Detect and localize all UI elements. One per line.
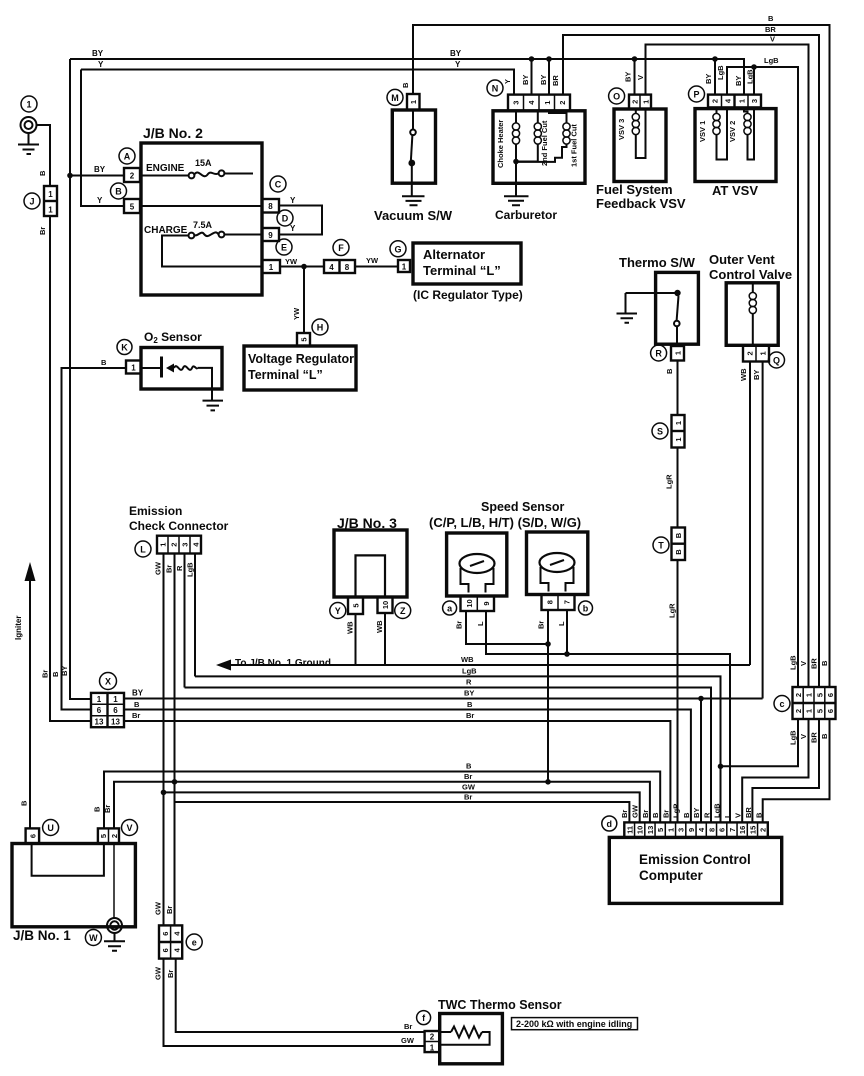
svg-text:Br: Br xyxy=(103,805,112,813)
J/B No.3 box xyxy=(334,530,407,597)
svg-text:B: B xyxy=(665,368,674,374)
carburetor box xyxy=(493,111,585,184)
wire B from O2 sensor down to X pin 6 xyxy=(62,368,127,710)
speed sensor a box xyxy=(447,533,507,596)
OVCV box xyxy=(726,283,778,346)
svg-text:BR: BR xyxy=(765,25,776,34)
svg-text:10: 10 xyxy=(636,826,645,834)
svg-text:Br: Br xyxy=(466,711,474,720)
svg-text:1: 1 xyxy=(543,101,552,105)
svg-text:2: 2 xyxy=(169,543,178,547)
junction LgB with connector c branch xyxy=(718,764,724,770)
svg-text:Terminal “L”: Terminal “L” xyxy=(423,263,501,278)
svg-text:Br: Br xyxy=(41,670,50,678)
svg-text:1: 1 xyxy=(402,263,407,272)
svg-text:VSV 1: VSV 1 xyxy=(698,121,707,142)
connector c circled xyxy=(774,696,790,712)
svg-text:16: 16 xyxy=(738,826,747,834)
svg-text:YW: YW xyxy=(292,307,301,320)
connector Y circled + pin 5 xyxy=(330,597,363,619)
wire Br J down to X pin 13 xyxy=(50,216,91,721)
svg-text:O2 Sensor: O2 Sensor xyxy=(144,330,202,345)
wire igniter down to J/B No.1 pin 6 xyxy=(29,578,31,828)
svg-text:V: V xyxy=(734,813,743,818)
svg-text:1: 1 xyxy=(430,1044,435,1053)
svg-text:4: 4 xyxy=(697,827,706,832)
connector J xyxy=(24,186,57,216)
svg-text:13: 13 xyxy=(111,718,120,727)
svg-text:X: X xyxy=(105,677,111,687)
svg-text:4: 4 xyxy=(172,931,181,936)
wire pin8 to pin9 loop xyxy=(279,206,322,235)
svg-text:3: 3 xyxy=(677,828,686,832)
ground (thermo S/W) xyxy=(617,293,638,323)
svg-text:J/B No. 2: J/B No. 2 xyxy=(143,125,203,141)
svg-text:LgB: LgB xyxy=(713,803,722,818)
J/B No.3 inner slot xyxy=(356,555,386,597)
svg-text:Br: Br xyxy=(455,621,464,629)
pin 1 (K) xyxy=(126,361,141,374)
svg-text:GW: GW xyxy=(631,804,640,818)
connector c box pins 2 1 5 6 xyxy=(793,687,836,719)
wire Br sensor a pin10 xyxy=(466,611,548,644)
svg-text:TWC Thermo Sensor: TWC Thermo Sensor xyxy=(438,998,562,1012)
svg-text:Br: Br xyxy=(464,772,472,781)
wire WB J/B3 pin10 down to WB line xyxy=(384,613,386,665)
svg-text:O: O xyxy=(613,92,620,102)
svg-text:Control Valve: Control Valve xyxy=(709,267,792,282)
OVCV connector pins 2 1 xyxy=(743,345,769,361)
svg-text:2: 2 xyxy=(430,1033,435,1042)
svg-text:V: V xyxy=(126,823,132,833)
svg-text:ENGINE: ENGINE xyxy=(146,163,185,174)
svg-text:4: 4 xyxy=(527,100,536,105)
svg-text:7: 7 xyxy=(562,600,571,604)
svg-text:2: 2 xyxy=(794,709,803,713)
computer pin wire labels xyxy=(620,803,764,818)
wire Br bus3 to computer pin 11 xyxy=(175,802,630,822)
wire Br sensor b pin8 down to Br bus xyxy=(547,610,549,782)
wire BR connector c to computer pin 15 xyxy=(752,719,819,822)
svg-text:LgB: LgB xyxy=(789,655,798,670)
connector b circled xyxy=(579,601,593,615)
junction fuel VSV pin2 on BY bus xyxy=(632,56,638,62)
wire V connector c to computer pin 16 xyxy=(742,719,808,822)
svg-text:1: 1 xyxy=(759,351,768,355)
speed sensor a connector pins 10 9 xyxy=(461,596,495,611)
svg-text:4: 4 xyxy=(724,98,733,103)
pin 2 (A) xyxy=(124,168,140,182)
junction AT VSV pin2 on BY bus xyxy=(712,56,718,62)
svg-text:Y: Y xyxy=(97,196,103,205)
svg-text:G: G xyxy=(394,244,401,254)
svg-text:1: 1 xyxy=(674,437,683,441)
svg-text:Br: Br xyxy=(38,227,47,235)
connector P circled xyxy=(689,86,705,102)
svg-text:e: e xyxy=(192,938,197,948)
fuse CHARGE 7.5A xyxy=(162,232,262,267)
svg-text:Computer: Computer xyxy=(639,868,703,883)
wire B connector c to computer pin 2 xyxy=(763,719,830,822)
svg-text:WB: WB xyxy=(375,620,384,633)
AT VSV connector pins 2 4 1 3 xyxy=(708,95,761,108)
svg-text:Br: Br xyxy=(165,565,174,573)
junction AT VSV pin3 on LgB line xyxy=(751,64,757,70)
connector D circled xyxy=(277,210,293,226)
svg-text:WB: WB xyxy=(346,621,355,634)
svg-text:13: 13 xyxy=(646,826,655,834)
svg-text:8: 8 xyxy=(268,202,273,211)
svg-text:U: U xyxy=(47,823,54,833)
wire V top line from fuel VSV pin 1 to right edge xyxy=(646,45,809,688)
svg-text:5: 5 xyxy=(99,834,108,838)
svg-text:Vacuum S/W: Vacuum S/W xyxy=(374,208,453,223)
connector O circled xyxy=(609,88,625,104)
2nd Fuel Cut coil xyxy=(516,111,541,162)
svg-text:Br: Br xyxy=(464,793,472,802)
svg-text:A: A xyxy=(124,152,131,162)
svg-text:6: 6 xyxy=(826,693,835,697)
fuse ENGINE 15A xyxy=(140,170,253,178)
vacuum S/W box xyxy=(392,110,435,183)
svg-text:B: B xyxy=(768,14,774,23)
svg-text:Check Connector: Check Connector xyxy=(129,519,229,533)
svg-text:LgB: LgB xyxy=(764,56,779,65)
AT VSV box xyxy=(695,109,776,182)
svg-text:1: 1 xyxy=(409,100,418,104)
svg-text:BR: BR xyxy=(810,658,819,669)
emission control computer box xyxy=(609,837,781,903)
pin 8 (C) xyxy=(262,199,279,213)
svg-text:AT VSV: AT VSV xyxy=(712,183,758,198)
svg-text:(C/P, L/B, H/T) (S/D, W/G): (C/P, L/B, H/T) (S/D, W/G) xyxy=(429,515,581,530)
svg-text:Br: Br xyxy=(641,810,650,818)
svg-text:1: 1 xyxy=(642,100,651,104)
junction carb pin1 on BY bus xyxy=(546,56,552,62)
wire WB OVCV pin2 down to WB line xyxy=(749,362,751,666)
svg-text:Y: Y xyxy=(335,606,341,616)
svg-text:6: 6 xyxy=(28,834,37,838)
wire GW bus to computer pin 10 xyxy=(164,792,640,822)
svg-text:Feedback VSV: Feedback VSV xyxy=(596,196,686,211)
thermo switch contacts xyxy=(626,290,681,346)
svg-text:Emission Control: Emission Control xyxy=(639,852,751,867)
svg-text:5: 5 xyxy=(815,693,824,697)
svg-text:GW: GW xyxy=(154,966,163,980)
svg-text:10: 10 xyxy=(465,599,474,607)
svg-text:1: 1 xyxy=(97,695,102,704)
wire carb pin1 BY xyxy=(548,59,550,95)
wire AT VSV pin2 BY xyxy=(714,59,716,95)
VSV 2 coil xyxy=(744,107,754,159)
svg-text:C: C xyxy=(275,180,282,190)
TWC pin connector 2 1 xyxy=(425,1031,440,1053)
svg-text:15A: 15A xyxy=(195,158,212,168)
svg-text:B: B xyxy=(820,660,829,666)
wire Br check pin2 down to e connector xyxy=(174,554,176,926)
thermo S/W box xyxy=(656,272,699,344)
svg-text:LgR: LgR xyxy=(668,603,677,618)
svg-text:LgB: LgB xyxy=(746,69,755,84)
wire L line to computer pin 7 xyxy=(567,654,730,822)
wire BY bus from X row1 to OVCV riser xyxy=(124,698,763,700)
grommet W xyxy=(85,918,122,946)
svg-text:GW: GW xyxy=(154,561,163,575)
svg-text:3: 3 xyxy=(750,99,759,103)
wire LgB bus to computer pin 6 xyxy=(195,676,721,822)
vacuum switch contacts xyxy=(408,110,415,196)
svg-text:1: 1 xyxy=(805,709,814,713)
wire B top line from vacuum switch to right edge xyxy=(413,25,830,687)
grommet ground terminal xyxy=(21,117,37,133)
svg-text:Y: Y xyxy=(455,60,461,69)
svg-text:W: W xyxy=(89,933,98,943)
svg-text:K: K xyxy=(121,343,128,353)
svg-text:Carburetor: Carburetor xyxy=(495,208,557,222)
svg-text:2: 2 xyxy=(631,100,640,104)
svg-text:2: 2 xyxy=(110,834,119,838)
ground (O2 sensor) xyxy=(203,389,224,410)
svg-text:Br: Br xyxy=(662,810,671,818)
svg-text:2: 2 xyxy=(746,351,755,355)
svg-text:BY: BY xyxy=(624,72,633,82)
connector a circled xyxy=(443,601,457,615)
wire LgB check pin4 to LgB bus xyxy=(194,554,196,677)
svg-text:B: B xyxy=(674,549,683,555)
TWC sensor box xyxy=(440,1014,503,1064)
O2 sensor element: electrode, arrow, resistor xyxy=(141,357,212,390)
svg-text:GW: GW xyxy=(401,1036,415,1045)
svg-text:2: 2 xyxy=(558,101,567,105)
svg-text:c: c xyxy=(779,699,784,709)
wire L sensor b pin7 xyxy=(566,610,568,654)
wire B grommet to J xyxy=(37,125,51,186)
svg-text:BY: BY xyxy=(752,370,761,380)
igniter arrow xyxy=(25,562,36,581)
svg-text:9: 9 xyxy=(268,231,273,240)
connector F xyxy=(324,240,355,274)
svg-text:BY: BY xyxy=(734,76,743,86)
wire Br e to TWC pin2 xyxy=(176,959,425,1032)
svg-text:BY: BY xyxy=(132,689,144,698)
svg-text:B: B xyxy=(820,733,829,739)
svg-text:B: B xyxy=(674,532,683,538)
svg-text:J: J xyxy=(29,197,34,207)
wire pin1(E) to connector F xyxy=(280,266,324,268)
svg-text:Choke Heater: Choke Heater xyxy=(496,120,505,168)
svg-text:BR: BR xyxy=(810,732,819,743)
connector Q circled xyxy=(769,352,785,368)
svg-text:8: 8 xyxy=(345,263,350,272)
svg-text:Y: Y xyxy=(98,60,104,69)
connector e box pins 6/4 xyxy=(159,925,202,958)
VSV 1 coil xyxy=(713,109,727,160)
junction speed sensor Br on Br bus xyxy=(545,779,551,785)
svg-text:L: L xyxy=(476,621,485,626)
check connector strip pins 1 2 3 4 xyxy=(157,536,201,554)
svg-text:N: N xyxy=(492,84,499,94)
svg-text:Thermo S/W: Thermo S/W xyxy=(619,255,696,270)
svg-text:5: 5 xyxy=(352,603,361,607)
svg-text:3: 3 xyxy=(180,543,189,547)
svg-text:Br: Br xyxy=(132,711,140,720)
svg-text:T: T xyxy=(658,541,664,551)
svg-text:CHARGE: CHARGE xyxy=(144,225,188,236)
wire LgR T down to computer pin 3 xyxy=(677,560,679,822)
ground (carburetor) xyxy=(504,183,529,205)
svg-text:LgB: LgB xyxy=(789,730,798,745)
svg-text:5: 5 xyxy=(130,203,135,212)
pin 1 (E) xyxy=(262,260,280,273)
svg-text:5: 5 xyxy=(656,828,665,832)
svg-text:B: B xyxy=(101,358,107,367)
svg-text:R: R xyxy=(655,349,662,359)
wire BY left riser with tap to J/B2 pin A, down to X pin 1 xyxy=(70,59,91,699)
1st Fuel Cut coil xyxy=(516,111,570,162)
svg-text:1: 1 xyxy=(113,695,118,704)
svg-text:LgB: LgB xyxy=(462,667,477,676)
svg-text:BR: BR xyxy=(551,75,560,86)
svg-text:Q: Q xyxy=(773,356,780,366)
pin 5 (B) xyxy=(124,199,140,213)
wire R bus to computer pin 8 xyxy=(185,688,712,823)
svg-text:Fuel System: Fuel System xyxy=(596,182,673,197)
svg-text:8: 8 xyxy=(707,828,716,832)
svg-text:S: S xyxy=(657,427,663,437)
svg-text:1st Fuel Cut: 1st Fuel Cut xyxy=(570,124,579,167)
svg-text:D: D xyxy=(282,214,289,224)
svg-text:4: 4 xyxy=(329,263,334,272)
svg-text:YW: YW xyxy=(366,256,379,265)
connector S inline xyxy=(652,415,685,448)
svg-text:R: R xyxy=(466,678,472,687)
J/B No.1 inner partition xyxy=(32,844,104,876)
wire YW down to H xyxy=(303,267,305,334)
wire R check pin3 to R bus xyxy=(184,554,186,688)
svg-text:B: B xyxy=(651,812,660,818)
wire GW e to TWC pin1 xyxy=(164,959,425,1046)
svg-text:Igniter: Igniter xyxy=(14,616,23,640)
pin 9 (D) xyxy=(262,228,279,241)
svg-text:VSV 2: VSV 2 xyxy=(728,121,737,142)
svg-text:4: 4 xyxy=(172,947,181,952)
TWC thermistor xyxy=(440,1027,490,1045)
connector C circled xyxy=(270,176,286,192)
wire B from V pin5 to computer pin 5 xyxy=(104,772,660,829)
svg-text:Y: Y xyxy=(290,224,296,233)
svg-text:LgR: LgR xyxy=(672,803,681,818)
junction carb common ground node xyxy=(513,159,519,165)
svg-text:LgR: LgR xyxy=(665,474,674,489)
connector X circled xyxy=(100,673,117,690)
wire BY top bus xyxy=(70,59,744,95)
svg-text:BY: BY xyxy=(521,75,530,85)
wire pin5 to pin8 xyxy=(140,205,262,207)
wire B bus from X row6 to computer pin 9 xyxy=(124,710,691,823)
connector K circled xyxy=(117,340,132,355)
svg-text:BY: BY xyxy=(704,74,713,84)
wire GW check pin1 down to e connector xyxy=(163,554,165,926)
svg-text:V: V xyxy=(636,75,645,80)
svg-text:B: B xyxy=(466,762,472,771)
svg-text:3: 3 xyxy=(512,101,521,105)
connector G circled + pin 1 xyxy=(390,241,410,272)
svg-text:V: V xyxy=(799,734,808,739)
svg-text:1: 1 xyxy=(674,351,683,355)
svg-text:M: M xyxy=(391,93,399,103)
svg-text:GW: GW xyxy=(154,901,163,915)
svg-text:2: 2 xyxy=(711,99,720,103)
fuel VSV connector pins 2 1 xyxy=(629,95,651,109)
svg-text:B: B xyxy=(115,187,122,197)
Choke Heater coil xyxy=(512,111,519,184)
svg-text:6: 6 xyxy=(161,948,170,952)
connector H circled + pin 5 xyxy=(297,319,328,346)
connector f circled xyxy=(417,1011,431,1025)
svg-text:B: B xyxy=(134,700,140,709)
wire WB line with To J/B No.1 Ground arrow xyxy=(219,664,750,666)
OVCV coil xyxy=(749,284,756,344)
svg-text:1: 1 xyxy=(131,364,136,373)
svg-text:1: 1 xyxy=(805,693,814,697)
Voltage Regulator Terminal L box xyxy=(244,346,356,390)
svg-text:B: B xyxy=(38,170,47,176)
svg-text:15: 15 xyxy=(748,826,757,834)
svg-text:LgB: LgB xyxy=(716,65,725,80)
wire B thermo to S xyxy=(677,361,679,416)
connector B circled xyxy=(111,183,127,199)
ground (top-left) xyxy=(18,133,39,154)
svg-text:L: L xyxy=(723,813,732,818)
Alternator Terminal L box xyxy=(413,243,521,284)
svg-text:2: 2 xyxy=(130,172,135,181)
wire LgB connector c to LgB riser junction xyxy=(721,719,799,766)
wire Br from V pin2 to computer pin 13 xyxy=(114,782,650,829)
svg-text:Y: Y xyxy=(503,79,512,84)
svg-text:LgB: LgB xyxy=(186,562,195,577)
carburetor connector strip pins 3 4 1 2 xyxy=(508,95,570,111)
svg-text:H: H xyxy=(317,323,324,333)
svg-text:BY: BY xyxy=(92,49,104,58)
svg-text:6: 6 xyxy=(826,709,835,713)
svg-text:1: 1 xyxy=(26,100,31,110)
svg-text:B: B xyxy=(401,82,410,88)
wire BR top line from carburetor pin 2 to right edge xyxy=(563,35,819,687)
svg-text:8: 8 xyxy=(546,600,555,604)
ground (J/B No.1 W) xyxy=(104,933,125,951)
svg-text:13: 13 xyxy=(95,718,104,727)
connector A circled xyxy=(119,148,135,164)
svg-text:1: 1 xyxy=(666,828,675,832)
svg-text:Outer Vent: Outer Vent xyxy=(709,252,775,267)
svg-text:6: 6 xyxy=(161,932,170,936)
wire Y top bus to carburetor pin 3 xyxy=(81,70,514,95)
svg-text:d: d xyxy=(607,819,613,829)
O2 sensor box xyxy=(141,348,222,390)
svg-text:L: L xyxy=(557,621,566,626)
svg-text:To J/B No. 1 Ground: To J/B No. 1 Ground xyxy=(235,658,331,669)
svg-text:R: R xyxy=(703,812,712,818)
wire BY OVCV pin1 down to BY bus xyxy=(762,362,764,699)
svg-text:2: 2 xyxy=(759,828,768,832)
svg-text:11: 11 xyxy=(625,826,634,834)
J/B No.1 box xyxy=(12,844,135,927)
svg-text:R: R xyxy=(175,565,184,571)
svg-text:L: L xyxy=(140,545,146,555)
svg-text:1: 1 xyxy=(48,190,53,199)
wire Y left riser to J/B2 pin B xyxy=(81,70,124,207)
wire fuel VSV pin2 BY xyxy=(634,59,636,95)
